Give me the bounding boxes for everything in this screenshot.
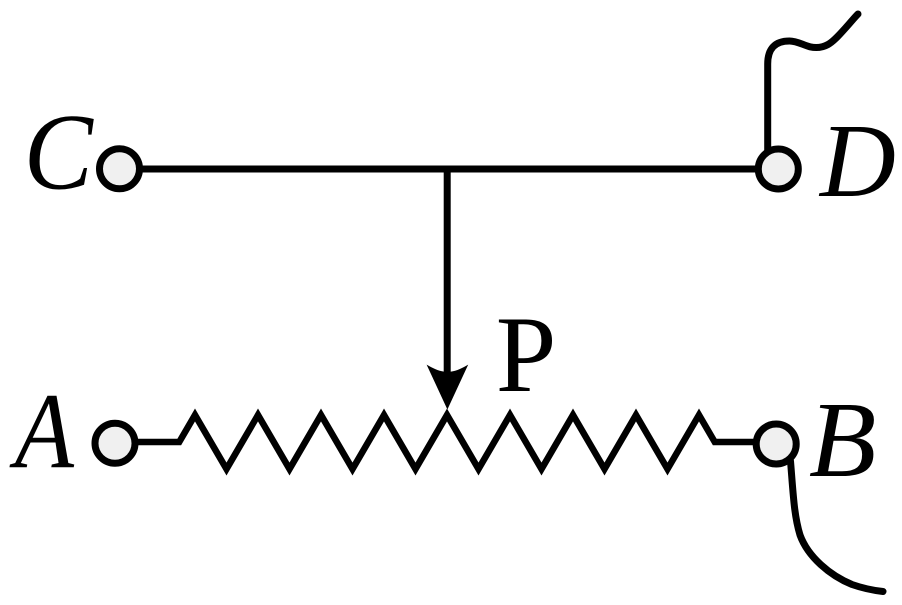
wire: slider arrow shaft (444, 169, 451, 373)
terminal C (100, 149, 140, 189)
svg-text:C: C (24, 91, 94, 212)
svg-text:P: P (496, 294, 557, 415)
arrowhead of slider P (427, 365, 469, 410)
terminal A (95, 423, 135, 463)
wire C-D (top horizontal) (130, 166, 770, 173)
resistor A-B (zigzag) (115, 415, 776, 469)
wire: flexible lead from B down to bottom-right (791, 461, 884, 592)
svg-text:D: D (818, 102, 896, 219)
terminal D (758, 149, 798, 189)
wire: flexible lead from D up to top-right (768, 14, 858, 151)
svg-text:B: B (809, 380, 876, 500)
svg-text:A: A (9, 372, 75, 491)
terminal B (756, 424, 796, 464)
